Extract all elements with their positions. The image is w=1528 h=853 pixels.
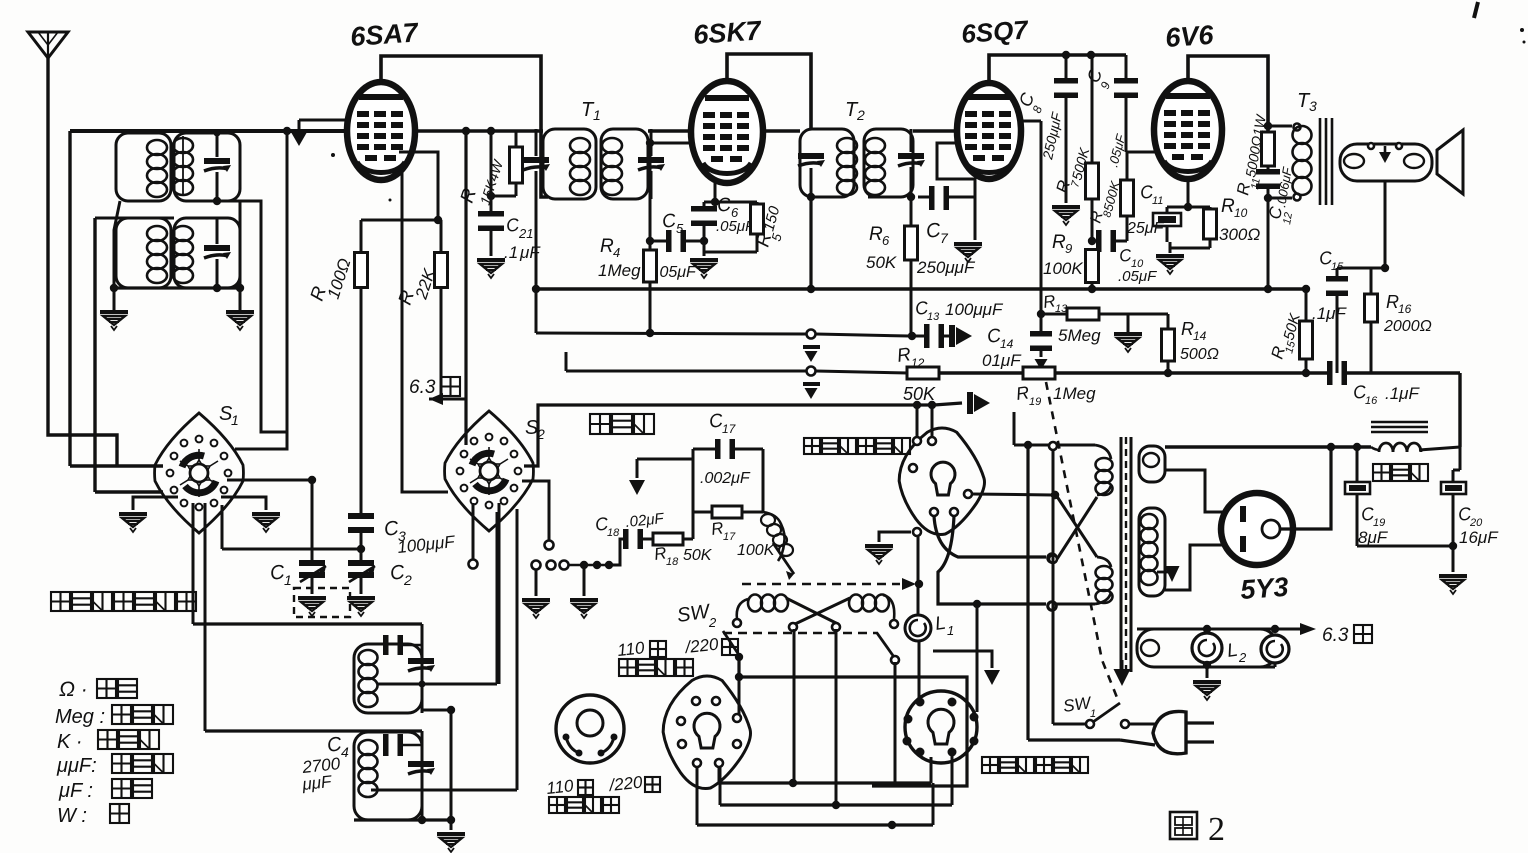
wire rail y447 bbox=[1165, 443, 1371, 451]
svg-text:16: 16 bbox=[1398, 302, 1412, 316]
wire 6SQ7 out bbox=[1021, 121, 1041, 334]
PT X cross bbox=[1056, 495, 1097, 559]
svg-text:.1: .1 bbox=[504, 243, 518, 262]
wire L1 bottom bbox=[918, 641, 921, 700]
svg-text:01μF: 01μF bbox=[982, 351, 1022, 370]
SW1 lever bbox=[1093, 703, 1120, 722]
bus B2 bbox=[719, 781, 931, 784]
svg-text:14: 14 bbox=[1193, 329, 1207, 343]
wire filter bottom bbox=[1357, 542, 1457, 550]
wire socket drop a bbox=[916, 405, 919, 437]
svg-text:2: 2 bbox=[708, 615, 717, 630]
wire osc sec tap bbox=[217, 201, 287, 449]
capacitor C5 bbox=[646, 230, 704, 252]
dash gang pot bbox=[742, 578, 923, 590]
svg-text:1: 1 bbox=[231, 412, 239, 428]
wire S2 plate drop bbox=[464, 131, 467, 445]
label T3 bbox=[1297, 90, 1317, 114]
label SW1 bbox=[1062, 693, 1096, 720]
wire L2 bottom bbox=[1192, 663, 1275, 667]
wire S2 right d bbox=[516, 509, 519, 790]
PT left node y495 bbox=[1051, 491, 1059, 499]
svg-text:13: 13 bbox=[1055, 303, 1068, 315]
ground C6 bbox=[690, 258, 718, 278]
svg-text:11: 11 bbox=[1152, 195, 1163, 207]
svg-text:100μμF: 100μμF bbox=[945, 300, 1004, 319]
socket motor upper bbox=[899, 428, 984, 534]
label R11 bbox=[1233, 112, 1269, 197]
wire x402 top bbox=[401, 170, 404, 300]
PT sec bottom box bbox=[1137, 629, 1277, 667]
label S1 bbox=[219, 403, 239, 428]
svg-text:/220: /220 bbox=[607, 773, 643, 796]
tube 6SQ7 V3 bbox=[957, 83, 1021, 179]
label C2 bbox=[389, 561, 412, 588]
label choke bbox=[1373, 464, 1428, 481]
ground ant2 bbox=[226, 288, 254, 330]
osc coil 2 bbox=[359, 740, 378, 797]
T2 coil b bbox=[865, 138, 885, 195]
transformer T1 boxes bbox=[543, 129, 648, 199]
wire sec to 5Y3 b bbox=[1165, 545, 1236, 590]
wire rail y371 bbox=[566, 352, 908, 376]
capacitor C18 bbox=[623, 529, 653, 549]
legend omega bbox=[59, 678, 137, 701]
svg-text:.05μF: .05μF bbox=[1118, 268, 1157, 285]
svg-text:21: 21 bbox=[518, 226, 533, 241]
capacitor C8 bbox=[1054, 55, 1078, 203]
svg-text:6V6: 6V6 bbox=[1164, 20, 1215, 53]
wire C1 drop bbox=[311, 480, 314, 560]
wire 6SQ7 plate bbox=[989, 51, 1126, 83]
capacitor C7 bbox=[918, 186, 975, 210]
capacitor C19 bbox=[1345, 447, 1370, 546]
wire osc bot line2 bbox=[205, 729, 422, 732]
switch S2 bbox=[445, 411, 534, 531]
socket 110 pins bbox=[677, 697, 741, 767]
svg-text:1Meg: 1Meg bbox=[598, 261, 641, 280]
resistor R18 bbox=[653, 533, 693, 545]
wire S1 osc drop b bbox=[204, 503, 207, 731]
trimmer osc1 bbox=[408, 658, 435, 672]
wire S1 osc drop a bbox=[192, 503, 195, 624]
tube 5Y3 bbox=[1221, 493, 1293, 565]
label 6.3V top bbox=[409, 377, 460, 398]
capacitor C4 bbox=[383, 734, 422, 756]
SW2 lever left bbox=[723, 631, 743, 661]
wire speaker down bbox=[1384, 181, 1387, 268]
svg-text:.002μF: .002μF bbox=[700, 470, 751, 487]
PT sec mid box bbox=[1139, 508, 1165, 596]
capacitor C15 bbox=[1326, 268, 1348, 373]
T1 coil b bbox=[602, 138, 622, 195]
resistor R13 bbox=[1041, 308, 1168, 320]
ground osc bbox=[437, 820, 465, 852]
label R5 bbox=[753, 204, 785, 249]
wire S1 gnd right bbox=[221, 497, 280, 532]
svg-text:1: 1 bbox=[1090, 708, 1096, 720]
capacitor C9 bbox=[1114, 55, 1138, 152]
wire outer left vert bbox=[68, 131, 71, 466]
wire S2 bot b bbox=[498, 503, 501, 684]
trimmer osc2 bbox=[408, 761, 435, 775]
trimmer C T1b bbox=[638, 129, 665, 199]
ground PT core bbox=[1114, 660, 1131, 686]
label 6V6 bbox=[1164, 20, 1215, 53]
wire 6V6 plate bbox=[1188, 56, 1268, 133]
wire x497 up bbox=[496, 512, 499, 684]
lamp L2b bbox=[1261, 635, 1289, 663]
svg-text:6.3: 6.3 bbox=[1322, 625, 1349, 646]
trimmer cap ant2 bbox=[204, 218, 231, 288]
label sw label b bbox=[549, 797, 619, 813]
svg-text:2: 2 bbox=[536, 426, 545, 442]
label R14 bbox=[1180, 319, 1219, 363]
label C6 bbox=[716, 194, 755, 235]
label C17 bbox=[700, 410, 751, 487]
SW2 lever right bbox=[877, 633, 899, 664]
wire rail y405 bbox=[524, 405, 917, 466]
svg-text:Meg :: Meg : bbox=[55, 706, 105, 728]
osc coil box2 bbox=[354, 732, 422, 820]
wire pin b2b bbox=[930, 757, 933, 783]
wire diode loop bbox=[937, 143, 975, 240]
resistor R4 bbox=[644, 250, 657, 282]
label C9 bbox=[1083, 65, 1113, 91]
svg-text:9: 9 bbox=[1065, 241, 1072, 256]
capacitor C14 bbox=[1030, 310, 1052, 370]
label R15 bbox=[1268, 311, 1305, 361]
label C4 bbox=[300, 733, 349, 794]
svg-text:50K: 50K bbox=[683, 547, 713, 564]
wire rail T2 to 6SQ7 bbox=[913, 129, 959, 133]
svg-text:1: 1 bbox=[593, 107, 601, 123]
capacitor C10 bbox=[1088, 230, 1127, 252]
stray marks bbox=[331, 2, 1526, 202]
wire osc1 tap bbox=[377, 681, 497, 688]
label R9 bbox=[1043, 232, 1083, 278]
label R13 bbox=[1042, 291, 1101, 345]
legend Meg bbox=[55, 705, 173, 728]
label 5Y3 bbox=[1239, 572, 1289, 605]
jack contacts bbox=[532, 561, 614, 570]
switch S1 bbox=[155, 413, 244, 533]
label R4 bbox=[598, 236, 641, 280]
label C8 bbox=[1015, 89, 1065, 161]
wire S1 to C1 line bbox=[227, 476, 316, 484]
wire R6 to C13 bbox=[910, 334, 913, 336]
label L2 bbox=[1226, 640, 1247, 665]
wire S2 right c bbox=[522, 481, 554, 550]
wire R1 bottom bbox=[360, 288, 363, 516]
svg-text:6SA7: 6SA7 bbox=[349, 17, 420, 52]
wire S1 gnd left bbox=[119, 497, 178, 532]
label pickup bbox=[590, 414, 654, 434]
resistor R10 bbox=[1204, 207, 1217, 248]
resistor R19 bbox=[1023, 367, 1055, 379]
label shortwave note bbox=[51, 592, 196, 611]
resistor R3 bbox=[510, 131, 523, 196]
trimmer C T2b bbox=[898, 129, 925, 197]
label S2 bbox=[525, 417, 545, 442]
wire box2 top bbox=[95, 217, 174, 220]
resistor R2 bbox=[435, 220, 448, 288]
dashed box C1 bbox=[294, 588, 350, 617]
wire T3 taps bbox=[1264, 122, 1301, 202]
label C3 bbox=[383, 517, 457, 557]
label C21 bbox=[504, 214, 541, 262]
wire R11 C12 bbox=[1267, 166, 1270, 171]
wire R2 bottom bbox=[440, 288, 443, 399]
wire upper pin r1 bbox=[972, 491, 1059, 499]
jack sym A bbox=[803, 345, 820, 362]
PT primary coil bot bbox=[1095, 557, 1113, 604]
svg-text:6SQ7: 6SQ7 bbox=[960, 14, 1030, 49]
svg-text:16: 16 bbox=[1365, 395, 1378, 407]
wire 6SK7 cath bbox=[704, 183, 757, 206]
wire upper pin d2 bbox=[938, 516, 1057, 611]
ground 6V6 cath bbox=[1156, 254, 1184, 274]
ant coil L2b bbox=[173, 226, 193, 283]
wire plug lower bbox=[1028, 740, 1155, 745]
wire osc2 vert bbox=[421, 731, 424, 820]
plug 110 round bbox=[556, 695, 624, 763]
wire upper pin gnd bbox=[865, 532, 911, 564]
wire box2 left vert bbox=[93, 218, 96, 492]
keyhole upper bbox=[931, 462, 955, 495]
resistor R9 bbox=[1086, 250, 1099, 294]
wire sec to 5Y3 a bbox=[1165, 470, 1236, 512]
PT left node y559 bbox=[1049, 555, 1057, 563]
wire rail y131 right of 6SA7 bbox=[415, 129, 543, 133]
wire x794 bbox=[789, 629, 797, 787]
svg-text:R: R bbox=[1221, 196, 1235, 217]
label R10 bbox=[1219, 196, 1260, 244]
wire rail y405b bbox=[913, 401, 936, 409]
capacitor C21 bbox=[478, 131, 504, 256]
svg-text:300Ω: 300Ω bbox=[1219, 225, 1260, 244]
wire osc bottom bbox=[354, 816, 455, 824]
svg-text:6: 6 bbox=[882, 233, 890, 248]
wire S1 to C3 line bbox=[222, 505, 361, 549]
capacitor C3 bbox=[348, 513, 374, 548]
label 6.3V right bbox=[1322, 625, 1372, 646]
wire S2 bot a bbox=[469, 503, 478, 569]
PT sec mid tap bbox=[1157, 566, 1180, 582]
svg-text:R: R bbox=[869, 224, 883, 245]
wire x1053 long bbox=[1052, 450, 1055, 724]
label T2 bbox=[845, 99, 865, 123]
svg-text:μμF:: μμF: bbox=[56, 755, 97, 777]
PT core bbox=[1121, 437, 1131, 672]
label R12 bbox=[896, 344, 936, 404]
svg-text:2: 2 bbox=[1208, 811, 1225, 848]
T2 coil a bbox=[837, 138, 857, 195]
label C1 bbox=[269, 561, 292, 588]
svg-text:15: 15 bbox=[1331, 261, 1344, 273]
socket motor lower bbox=[905, 691, 977, 763]
node T2b bbox=[868, 193, 915, 201]
legend uuF bbox=[56, 754, 173, 777]
svg-text:6SK7: 6SK7 bbox=[692, 15, 763, 50]
T3 primary coil bbox=[1293, 126, 1312, 195]
wire rail y373 right bbox=[1055, 371, 1328, 374]
wire L1 top bbox=[917, 536, 920, 615]
wire pin b2a bbox=[718, 763, 721, 783]
pot volume bbox=[761, 512, 794, 580]
SW2 coil right bbox=[849, 595, 898, 629]
wire L2 gnd bbox=[1193, 661, 1221, 700]
wire cathode 6SA7 bbox=[361, 152, 442, 224]
label C5 bbox=[655, 210, 697, 281]
wire 6V6 cath bbox=[1167, 179, 1210, 211]
caption fig2 bbox=[1170, 811, 1225, 848]
node ant1 bbox=[213, 130, 221, 206]
svg-text:100K: 100K bbox=[737, 542, 776, 559]
osc coil 1 bbox=[359, 650, 378, 707]
svg-text:18: 18 bbox=[666, 556, 679, 568]
legend W bbox=[57, 804, 129, 827]
svg-text:17: 17 bbox=[722, 422, 737, 436]
svg-text:500Ω: 500Ω bbox=[1180, 346, 1219, 363]
label C14 bbox=[982, 325, 1022, 370]
svg-text:10: 10 bbox=[1234, 206, 1248, 220]
ant coil L1a bbox=[147, 140, 167, 197]
svg-text:R: R bbox=[1052, 232, 1066, 253]
wire 6.3 out bbox=[1137, 623, 1316, 635]
wire osc mid bbox=[422, 706, 455, 714]
svg-text:μF :: μF : bbox=[58, 780, 93, 802]
socket lower pins bbox=[903, 698, 979, 757]
svg-text:/220: /220 bbox=[683, 635, 719, 658]
PT left wire y604 bbox=[1048, 602, 1095, 610]
label C15 bbox=[1312, 247, 1347, 323]
capacitor C20 bbox=[1441, 482, 1466, 546]
svg-text:5: 5 bbox=[676, 221, 684, 236]
resistor R11 bbox=[1262, 132, 1275, 166]
wire C18 lead bbox=[612, 539, 625, 565]
jack sym B bbox=[803, 382, 820, 399]
wire 6SK7 grid bbox=[648, 142, 693, 145]
speaker arrow bbox=[1368, 143, 1402, 163]
speaker horn bbox=[1437, 130, 1463, 194]
speaker vc loop a bbox=[1344, 154, 1364, 168]
label C7 bbox=[916, 219, 976, 277]
keyhole 110 bbox=[694, 713, 720, 748]
svg-text:2000Ω: 2000Ω bbox=[1383, 318, 1432, 335]
ant coil box2 bbox=[116, 218, 240, 288]
socket upper pins bbox=[909, 437, 972, 536]
dash SW2 line bbox=[723, 632, 878, 635]
svg-text:8μF: 8μF bbox=[1358, 528, 1389, 547]
svg-text:1Meg: 1Meg bbox=[1053, 384, 1096, 403]
label C13 bbox=[914, 297, 1004, 323]
svg-text:1: 1 bbox=[947, 623, 954, 638]
wire S1 feed mid bbox=[70, 464, 163, 467]
wire R10 bottom bbox=[1170, 242, 1210, 253]
label C20 bbox=[1457, 503, 1499, 547]
wire 6SA7 plate top bbox=[381, 56, 548, 197]
wire upper pin d1 bbox=[934, 516, 1057, 563]
wire S1 feed low bbox=[95, 490, 163, 493]
ground C7 bbox=[954, 242, 982, 262]
PT primary coil top bbox=[1095, 445, 1113, 495]
svg-text:14: 14 bbox=[1000, 337, 1014, 351]
lamp L1 bbox=[905, 615, 931, 641]
wire T2a down bbox=[807, 197, 815, 293]
resistor R1 bbox=[355, 220, 368, 288]
antenna bbox=[28, 32, 68, 58]
resistor R8 bbox=[1121, 152, 1134, 241]
wire x895 bbox=[894, 662, 897, 783]
capacitor C11 electrolytic bbox=[1153, 207, 1181, 242]
lamp L2a bbox=[1192, 633, 1222, 663]
label T1 bbox=[581, 99, 601, 123]
wire box1 bottom bbox=[114, 201, 240, 288]
svg-text:5Y3: 5Y3 bbox=[1239, 572, 1289, 605]
wire y445 stub bbox=[1013, 412, 1016, 445]
node r131 dots bbox=[462, 127, 495, 135]
capacitor osc1 bbox=[383, 635, 422, 655]
wire rail y289 bbox=[532, 285, 1306, 293]
svg-text:3: 3 bbox=[1309, 98, 1317, 114]
wire antenna down bbox=[48, 58, 117, 466]
trimmer C T1a bbox=[523, 129, 550, 199]
capacitor C1 variable bbox=[299, 560, 326, 594]
svg-text:18: 18 bbox=[607, 527, 620, 539]
svg-text:12: 12 bbox=[1281, 211, 1295, 225]
svg-text:W :: W : bbox=[57, 805, 87, 827]
node grid arrow bbox=[292, 120, 307, 146]
svg-text:μμF: μμF bbox=[300, 772, 333, 794]
legend K bbox=[57, 730, 159, 753]
wire C16 corner bbox=[1458, 373, 1461, 447]
wire x836 bbox=[832, 629, 840, 809]
wire 5Y3 cath bbox=[1280, 443, 1335, 529]
capacitor C12 bbox=[1256, 169, 1280, 293]
resistor R15 bbox=[1300, 285, 1313, 377]
svg-text:4: 4 bbox=[613, 245, 620, 260]
ground jack a bbox=[522, 570, 550, 618]
svg-text:6.3: 6.3 bbox=[409, 377, 436, 398]
label R18 bbox=[653, 543, 713, 568]
svg-text:Ω ·: Ω · bbox=[59, 678, 88, 701]
wire pickup box bbox=[693, 449, 763, 539]
wire osc1 vert bbox=[421, 624, 424, 713]
ant coil box1 bbox=[116, 133, 240, 201]
ground C2 bbox=[347, 596, 375, 616]
wire to lower right pin bbox=[976, 604, 979, 712]
svg-text:.1μF: .1μF bbox=[1312, 304, 1347, 323]
choke core bbox=[1371, 422, 1428, 432]
tube 6SK7 V2 bbox=[691, 81, 763, 183]
svg-text:12: 12 bbox=[911, 356, 925, 370]
PT sec top box bbox=[1139, 446, 1165, 482]
label 6SK7 bbox=[692, 15, 763, 50]
arrow rail C bbox=[934, 392, 990, 414]
label R16 bbox=[1383, 292, 1432, 335]
ground R13 bbox=[1114, 314, 1142, 352]
wire S2 left feed bbox=[402, 300, 448, 492]
osc coil box1 bbox=[354, 644, 422, 713]
wire osc2 tap bbox=[371, 789, 517, 792]
resistor R12 bbox=[907, 367, 1023, 379]
ground C1 bbox=[298, 596, 326, 616]
capacitor C2 variable bbox=[348, 549, 375, 594]
tube 6V6 V4 bbox=[1154, 81, 1222, 179]
svg-text:K ·: K · bbox=[57, 731, 83, 753]
wire rail T1 to 6SK7 bbox=[648, 129, 692, 133]
